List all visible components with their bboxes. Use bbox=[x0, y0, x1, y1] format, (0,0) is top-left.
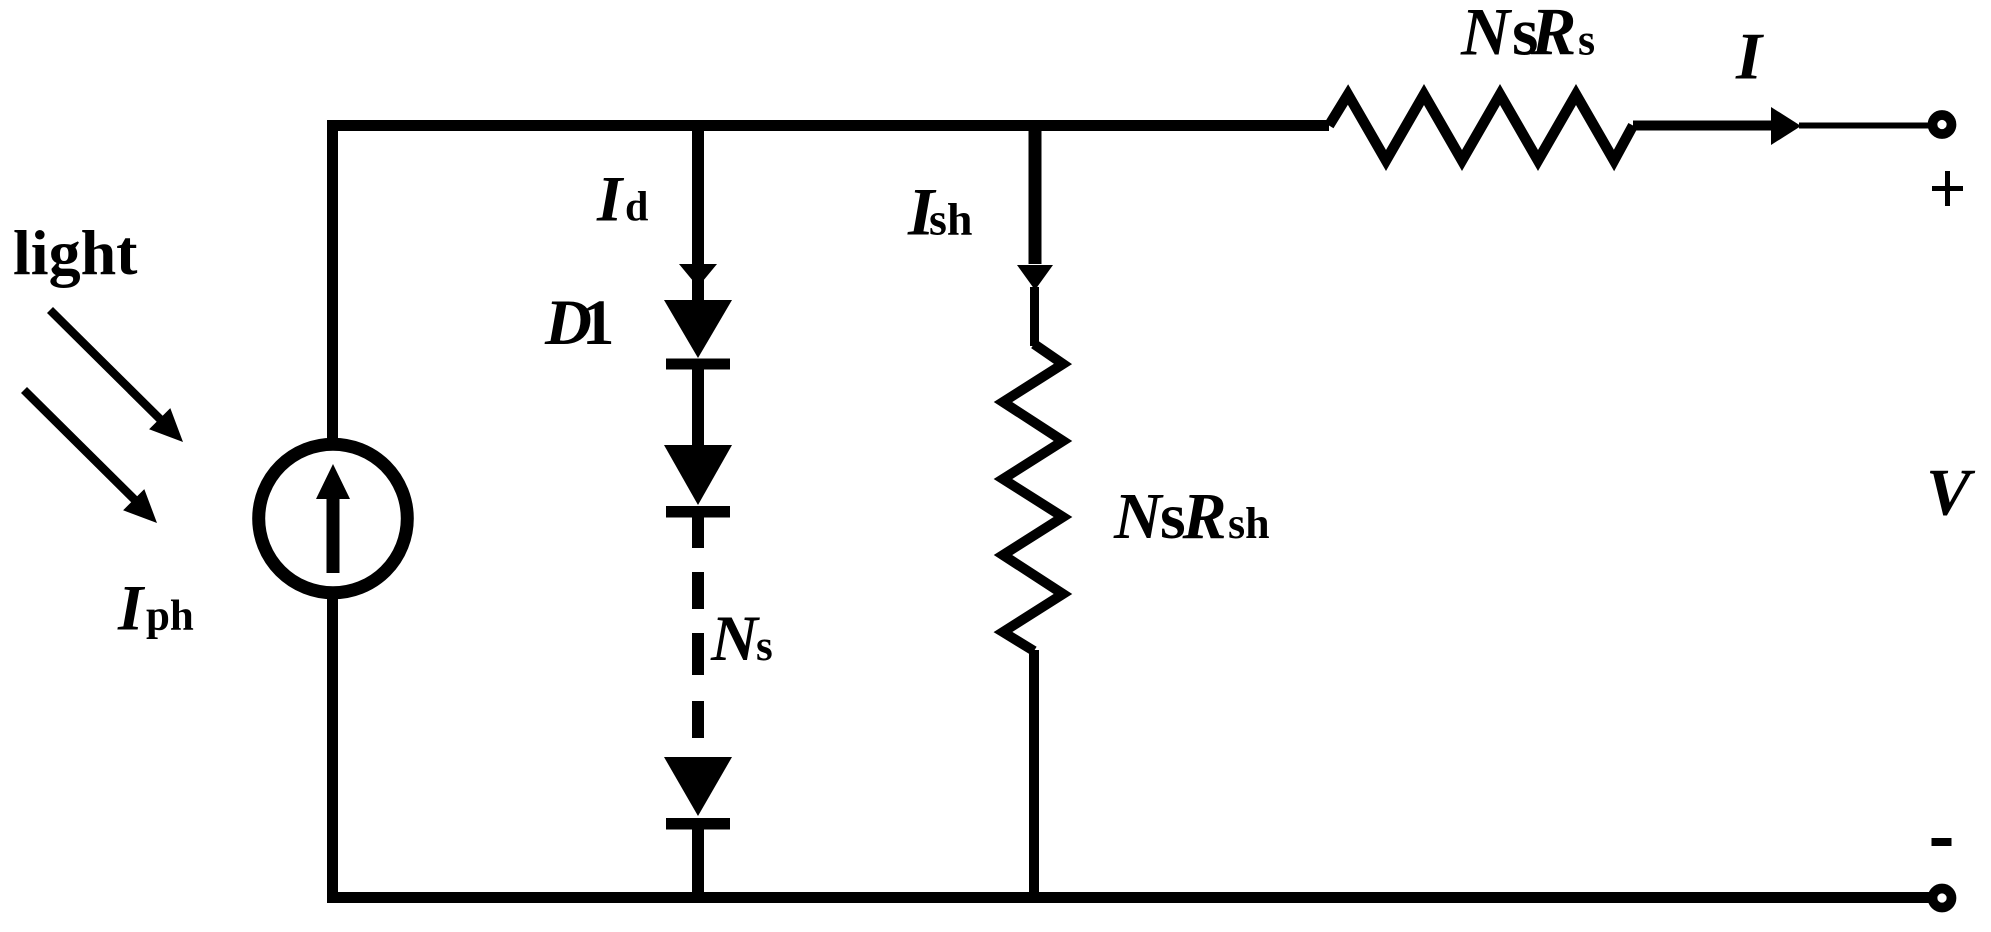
svg-text:N: N bbox=[1113, 480, 1164, 553]
light arrow 2 shaft bbox=[24, 390, 139, 504]
svg-text:d: d bbox=[625, 185, 648, 231]
wire left vertical lower and bottom bus bbox=[333, 593, 1934, 898]
wire between diode 1 and diode 2 bbox=[692, 369, 704, 446]
svg-text:I: I bbox=[117, 573, 146, 645]
dashed wire (Ns ellipsis) dash 1 bbox=[692, 572, 704, 609]
svg-text:sh: sh bbox=[1228, 499, 1270, 548]
current arrow Id head bbox=[679, 264, 717, 287]
svg-text:s: s bbox=[756, 623, 773, 670]
wire below diode 3 to bottom bus bbox=[692, 829, 704, 897]
resistor NsRsh zigzag bbox=[1003, 344, 1063, 651]
svg-text:R: R bbox=[1530, 0, 1576, 70]
wire below shunt resistor to bottom bus bbox=[1029, 650, 1039, 897]
light arrow 2 head bbox=[123, 489, 157, 523]
wire stub below diode 2 bbox=[692, 517, 704, 548]
svg-text:N: N bbox=[710, 603, 760, 675]
resistor NsRs zigzag (series) bbox=[1329, 95, 1633, 161]
wire from Ish arrow to shunt resistor bbox=[1030, 287, 1039, 346]
svg-text:R: R bbox=[1182, 480, 1227, 553]
wire from arrow I to positive terminal bbox=[1799, 123, 1933, 129]
current arrow I head (pointing right) bbox=[1771, 107, 1801, 145]
svg-text:N: N bbox=[1460, 0, 1513, 70]
svg-text:ph: ph bbox=[146, 593, 194, 640]
dashed wire dash 2 bbox=[692, 633, 704, 675]
diode D1 second cathode bar bbox=[666, 506, 730, 518]
minus sign bbox=[1932, 838, 1952, 846]
svg-text:light: light bbox=[13, 217, 138, 288]
plus sign bbox=[1932, 171, 1963, 206]
wire shunt branch shaft from top bus bbox=[1029, 126, 1042, 265]
diode D1 third cathode bar bbox=[666, 818, 730, 830]
terminal positive (top right) bbox=[1933, 115, 1952, 134]
light arrow 1 head bbox=[149, 408, 183, 442]
svg-text:sh: sh bbox=[929, 194, 972, 245]
wire from series resistor to output arrow bbox=[1633, 121, 1783, 131]
svg-text:1: 1 bbox=[582, 287, 615, 359]
svg-text:I: I bbox=[596, 164, 625, 236]
terminal negative (bottom right) bbox=[1933, 889, 1952, 908]
current source arrow (Iph, pointing up) bbox=[327, 495, 340, 573]
diode D1 second triangle bbox=[664, 445, 732, 505]
svg-text:I: I bbox=[1735, 20, 1764, 94]
diode D1 first triangle bbox=[664, 300, 732, 358]
dashed wire dash 3 bbox=[692, 701, 704, 738]
current arrow Ish head bbox=[1017, 265, 1053, 290]
current source U1 circle bbox=[259, 444, 408, 593]
wire top bus and left vertical upper bbox=[333, 126, 1330, 445]
diode D1 third triangle bbox=[664, 757, 732, 816]
wire diode branch shaft from top bus bbox=[692, 126, 704, 301]
light arrow 1 shaft bbox=[50, 310, 165, 424]
svg-text:s: s bbox=[1578, 16, 1595, 65]
diode D1 first cathode bar bbox=[666, 359, 730, 370]
svg-text:V: V bbox=[1926, 456, 1976, 530]
